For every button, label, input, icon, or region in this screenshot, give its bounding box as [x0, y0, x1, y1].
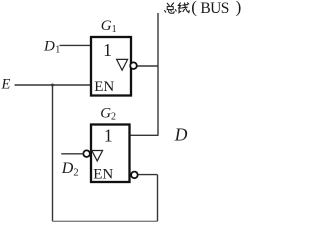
- svg-text:(: (: [191, 0, 197, 17]
- svg-text:1: 1: [103, 40, 112, 60]
- wire right riser to G2 EN: [157, 175, 159, 222]
- gate G2 output bubble (to D2): [83, 150, 90, 157]
- wire into G2 EN bubble: [138, 174, 157, 176]
- gate G1 box: [91, 37, 131, 96]
- wire G1 output to bus: [137, 65, 158, 67]
- wire D1 to G1 input: [60, 44, 92, 46]
- bus line: [157, 13, 159, 135]
- svg-text:D: D: [61, 160, 74, 177]
- wire E junction down: [52, 85, 54, 221]
- gate G2 EN bubble: [131, 172, 138, 179]
- gate G1 tri-state triangle: [117, 59, 128, 70]
- svg-text:2: 2: [111, 112, 116, 123]
- wire D2 stub: [61, 153, 83, 155]
- svg-text:1: 1: [112, 24, 117, 35]
- junction on E wire: [51, 84, 54, 87]
- svg-text:): ): [236, 0, 242, 17]
- wire bottom run: [53, 220, 158, 222]
- svg-text:G: G: [100, 106, 111, 122]
- bus label 总线 (hand-drawn glyphs): [165, 3, 190, 13]
- gate G2 box: [91, 125, 130, 183]
- svg-text:EN: EN: [94, 79, 114, 95]
- wire bus to G2 input: [131, 134, 159, 136]
- svg-text:D: D: [43, 38, 55, 54]
- wire E to G1 EN: [15, 84, 92, 86]
- svg-text:1: 1: [55, 45, 60, 56]
- svg-text:D: D: [174, 124, 188, 144]
- svg-text:BUS: BUS: [200, 0, 228, 17]
- svg-text:EN: EN: [93, 167, 113, 183]
- svg-text:1: 1: [104, 126, 113, 146]
- gate G2 tri-state triangle: [92, 151, 103, 161]
- gate G1 output bubble: [130, 62, 137, 69]
- svg-text:2: 2: [73, 168, 78, 179]
- svg-text:G: G: [101, 18, 112, 34]
- svg-text:E: E: [1, 76, 11, 92]
